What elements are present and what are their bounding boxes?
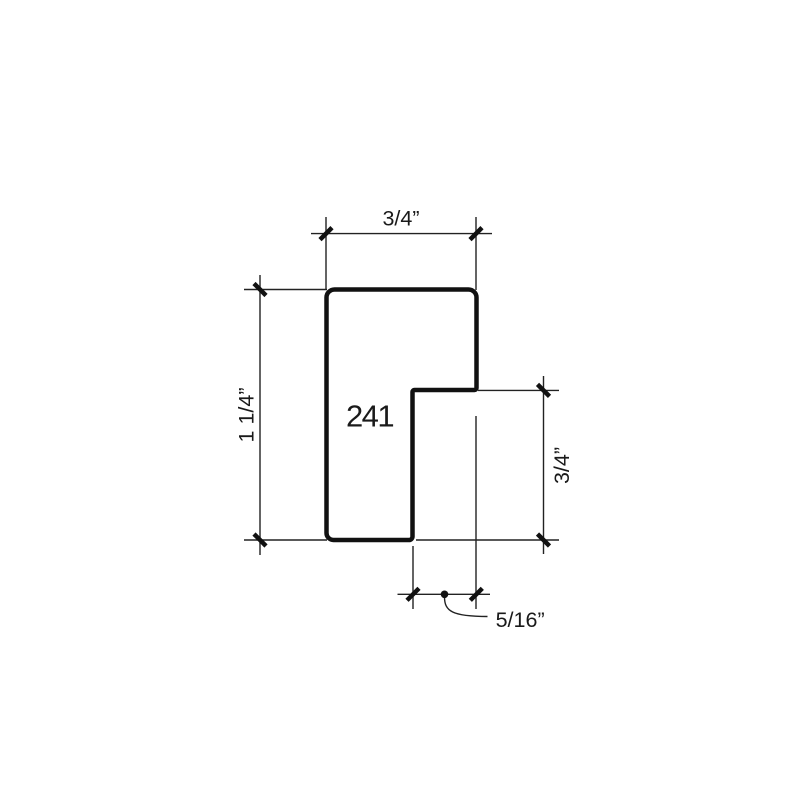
svg-text:1 1/4”: 1 1/4” — [235, 388, 259, 443]
svg-text:241: 241 — [346, 399, 393, 434]
svg-text:3/4”: 3/4” — [382, 207, 419, 231]
svg-text:3/4”: 3/4” — [550, 447, 574, 484]
svg-text:5/16”: 5/16” — [496, 608, 545, 632]
